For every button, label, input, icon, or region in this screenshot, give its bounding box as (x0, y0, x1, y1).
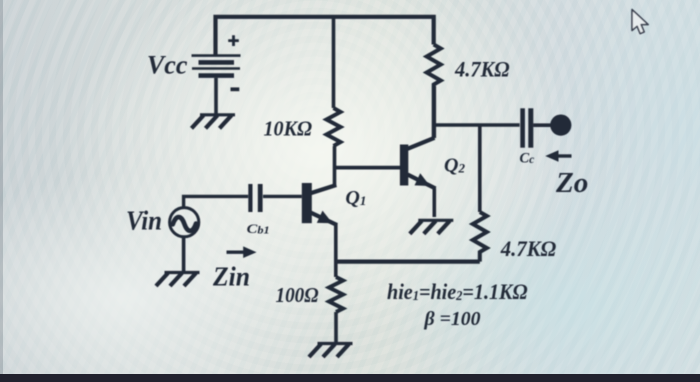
svg-text:Vin: Vin (126, 206, 162, 236)
svg-text:Zo: Zo (555, 167, 588, 199)
svg-text:10KΩ: 10KΩ (264, 117, 313, 141)
svg-text:Q2: Q2 (444, 155, 465, 177)
svg-text:4.7KΩ: 4.7KΩ (454, 56, 510, 81)
svg-text:Vcc: Vcc (147, 50, 188, 80)
svg-text:Q1: Q1 (345, 187, 366, 209)
svg-text:100Ω: 100Ω (276, 283, 319, 307)
svg-text:Cc: Cc (520, 151, 535, 167)
svg-text:4.7KΩ: 4.7KΩ (500, 236, 557, 261)
svg-text:Zin: Zin (212, 261, 250, 291)
svg-text:hie1=hie2=1.1KΩ: hie1=hie2=1.1KΩ (387, 279, 528, 304)
svg-text:Cb1: Cb1 (247, 221, 270, 237)
svg-text:β =100: β =100 (424, 308, 481, 330)
